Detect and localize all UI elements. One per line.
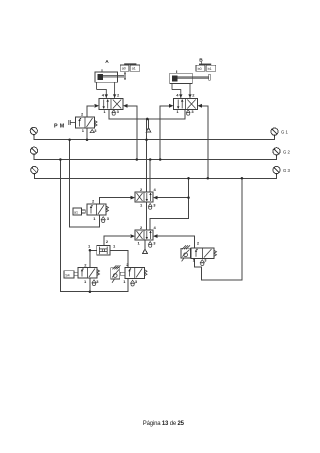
svg-text:b1: b1 bbox=[208, 67, 212, 71]
svg-text:a1: a1 bbox=[74, 210, 78, 214]
svg-text:b0: b0 bbox=[198, 67, 202, 71]
svg-text:S4: S4 bbox=[65, 273, 69, 277]
svg-text:M: M bbox=[60, 123, 65, 129]
svg-text:G 1: G 1 bbox=[281, 130, 289, 135]
svg-text:a1: a1 bbox=[132, 67, 136, 71]
svg-text:A: A bbox=[105, 59, 109, 65]
svg-text:a0: a0 bbox=[122, 67, 126, 71]
svg-text:G 2: G 2 bbox=[283, 149, 291, 154]
svg-text:P: P bbox=[54, 123, 58, 129]
svg-text:G 3: G 3 bbox=[283, 168, 291, 173]
svg-text:Página 13 de 25: Página 13 de 25 bbox=[143, 421, 185, 427]
